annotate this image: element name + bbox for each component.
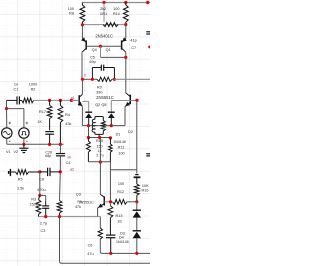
node dot rail-right (146, 1, 149, 4)
svg-text:2N5401C: 2N5401C (95, 34, 113, 39)
wire C1 corner to V1 (6, 100, 8, 108)
node dot C47u bottom (109, 252, 112, 255)
svg-text:C6: C6 (88, 243, 93, 247)
diode DR (108, 111, 115, 113)
wire R11 col down (109, 162, 111, 206)
svg-text:R10: R10 (96, 139, 103, 143)
svg-text:V1: V1 (6, 150, 11, 154)
svg-text:C3: C3 (40, 229, 45, 233)
resistor R13 (108, 206, 113, 218)
wire LR stub to out (99, 138, 101, 162)
svg-text:47u: 47u (87, 252, 93, 256)
svg-text:R13: R13 (116, 214, 123, 218)
resistor R11 (109, 144, 112, 152)
node dot a1 (70, 99, 73, 102)
source V1 (2, 128, 12, 138)
resistor R4 (58, 105, 63, 122)
node dot DL bottom (87, 124, 90, 127)
svg-text:C4: C4 (66, 161, 71, 165)
wire b-node left (82, 78, 97, 80)
label V2 plus (26, 122, 28, 124)
resistor R5k (57, 201, 62, 214)
svg-text:C1: C1 (13, 88, 18, 92)
svg-text:ob: ob (67, 155, 71, 159)
wire base ext down (136, 101, 138, 170)
ground input (23, 144, 25, 148)
wire DL to bus2 (88, 126, 90, 138)
wire emitter bus y24.6 (82, 24, 125, 26)
node dot C5 left (91, 78, 94, 81)
node dot bus2 left (87, 136, 90, 139)
svg-text:2N5551C: 2N5551C (96, 95, 114, 100)
node dot C5 right (113, 78, 116, 81)
svg-text:R14: R14 (113, 12, 120, 16)
wire fb bus (39, 216, 98, 218)
node dot R4 top (59, 99, 62, 102)
node dot R3 top (38, 194, 41, 197)
label V2 minus (26, 140, 28, 142)
svg-text:a2: a2 (70, 167, 74, 171)
svg-text:10K: 10K (142, 184, 149, 188)
label V1 minus (9, 140, 11, 142)
node dot input split (5, 107, 8, 110)
resistor R17 (47, 105, 52, 118)
svg-text:C5: C5 (90, 56, 95, 60)
node dot R4 bottom (59, 143, 62, 146)
diode D3 (136, 202, 138, 210)
svg-text:41p: 41p (130, 39, 136, 43)
svg-text:100: 100 (118, 182, 124, 186)
wire split to V2 (7, 108, 24, 110)
svg-text:43k: 43k (65, 122, 71, 126)
resistor R2 (22, 98, 34, 103)
resistor R14 (123, 5, 128, 22)
node dot Q4 collector b (81, 78, 84, 81)
wire emitter bus2 (89, 137, 111, 139)
svg-text:XR1: XR1 (100, 12, 107, 16)
svg-text:2.7p: 2.7p (40, 221, 47, 225)
node dot R17 top (48, 99, 51, 102)
svg-text:Q4: Q4 (92, 48, 97, 52)
wire R3top to C8col (40, 194, 46, 196)
node dot out (99, 160, 102, 163)
svg-text:R3: R3 (31, 198, 36, 202)
capacitor C47u (106, 234, 115, 236)
svg-text:R12: R12 (117, 190, 124, 194)
svg-text:Q1: Q1 (106, 48, 111, 52)
node dot rail-R14 (124, 1, 127, 4)
svg-text:100: 100 (118, 152, 124, 156)
svg-text:D4: D4 (119, 235, 124, 239)
resistor C6col (99, 217, 101, 228)
node dot C25 bottom (48, 143, 51, 146)
svg-text:1000: 1000 (29, 83, 37, 87)
wire out row (88, 161, 110, 163)
svg-text:100: 100 (68, 7, 74, 11)
node dot D4 bottom (135, 252, 138, 255)
svg-text:V2: V2 (13, 150, 18, 154)
node dot Q5 base ext (135, 99, 138, 102)
resistor R10 (101, 121, 105, 131)
svg-text:1.5k: 1.5k (17, 186, 24, 190)
node dot R15 bottom (135, 200, 138, 203)
resistor XR1 (103, 23, 118, 27)
resistor R15 (134, 184, 139, 195)
wire Q1c down to Q5 (125, 57, 127, 93)
wire base to C5 row (100, 46, 102, 57)
transistor Q4 (81, 25, 83, 39)
svg-text:47k: 47k (75, 205, 81, 209)
node dot R8 bottom (81, 23, 84, 26)
svg-text:150: 150 (96, 145, 102, 149)
wire diodeR top (110, 101, 112, 113)
node dot DR bottom (110, 124, 113, 127)
resistor R7 (87, 138, 89, 142)
resistor R3 (36, 200, 41, 215)
resistor R9 (97, 77, 112, 81)
svg-text:1N4148: 1N4148 (113, 140, 126, 144)
node dot rail-x104 (102, 1, 105, 4)
transistor Q3 (99, 162, 101, 195)
node dot R11 top (109, 136, 112, 139)
capacitor C7 (146, 31, 150, 33)
svg-text:D1: D1 (116, 133, 121, 137)
node dot C4 right (59, 170, 62, 173)
node dot R5k bottom (58, 215, 61, 218)
wire R2 to base bus (34, 99, 80, 101)
diode DL (85, 111, 92, 113)
wire C4 to R3 (39, 172, 41, 196)
svg-text:R5: R5 (77, 200, 81, 204)
node dot C4 left (38, 170, 41, 173)
capacitor C8b (42, 205, 49, 207)
capacitor C26 (56, 153, 65, 155)
svg-text:470u: 470u (37, 188, 45, 192)
svg-text:Q2 Q5: Q2 Q5 (95, 103, 106, 107)
wire emitter bus1 (82, 125, 125, 127)
wire diodeL top (82, 100, 88, 102)
svg-text:R11: R11 (118, 145, 125, 149)
svg-text:2k2: 2k2 (100, 7, 106, 11)
node dot R14 bottom (124, 23, 127, 26)
svg-text:R17: R17 (39, 110, 46, 114)
diode D4 (136, 218, 138, 231)
svg-text:1N4148: 1N4148 (116, 240, 129, 244)
label V1 plus (9, 122, 11, 124)
node dot C8 bottom (44, 215, 47, 218)
svg-text:C7: C7 (131, 46, 136, 50)
wire rail to XR1 (103, 3, 105, 22)
capacitor C2 (146, 153, 150, 155)
resistor R1p5k (8, 171, 9, 174)
wire b-node mid (112, 78, 114, 80)
wire V+ rail (82, 2, 150, 4)
capacitor C9 (135, 174, 138, 176)
node dot Q1 collector (124, 56, 127, 59)
wire source return bus (6, 138, 8, 144)
svg-text:R9: R9 (97, 85, 102, 89)
resistor R12 (113, 199, 128, 204)
svg-text:Q3: Q3 (76, 192, 81, 196)
node dot edge C7 (148, 46, 151, 49)
wire fb to Vminus (59, 217, 61, 262)
wire base row to Q1 collector (101, 56, 126, 58)
transistor Q1 (125, 25, 127, 39)
svg-text:1K: 1K (37, 120, 42, 124)
wire Q4-Q1 base (86, 45, 121, 47)
svg-text:R2: R2 (31, 88, 36, 92)
svg-text:68p: 68p (45, 154, 51, 158)
transistor Q2 (78, 95, 80, 105)
node dot LR stub (98, 136, 101, 139)
resistor R8 (80, 5, 85, 22)
wire b-node right gray (114, 78, 150, 80)
svg-text:150k: 150k (29, 202, 37, 206)
source V2 (19, 128, 29, 138)
svg-text:69p: 69p (89, 60, 95, 64)
transistor Q5 (129, 95, 131, 105)
inductor L1 (95, 117, 103, 121)
capacitor C25 (45, 131, 54, 133)
svg-text:b: b (84, 73, 86, 77)
svg-text:a1: a1 (71, 96, 75, 100)
svg-text:R5: R5 (18, 178, 23, 182)
node dot ground tap (22, 143, 25, 146)
node dot base pair (99, 45, 102, 48)
svg-text:R8: R8 (69, 12, 74, 16)
svg-text:C8: C8 (39, 178, 44, 182)
svg-text:390: 390 (96, 90, 102, 94)
svg-text:R4: R4 (65, 113, 70, 117)
capacitor C4 (47, 168, 49, 176)
capacitor C1 (16, 96, 18, 104)
wire fb bus right (98, 216, 101, 218)
wire out branch right (110, 169, 136, 171)
svg-text:R15: R15 (142, 189, 149, 193)
node dot Q3 base (109, 200, 112, 203)
svg-text:1n: 1n (14, 83, 18, 87)
svg-text:100: 100 (113, 7, 119, 11)
svg-text:D2: D2 (128, 130, 133, 134)
svg-text:33: 33 (117, 219, 121, 223)
capacitor C5 (100, 65, 102, 71)
